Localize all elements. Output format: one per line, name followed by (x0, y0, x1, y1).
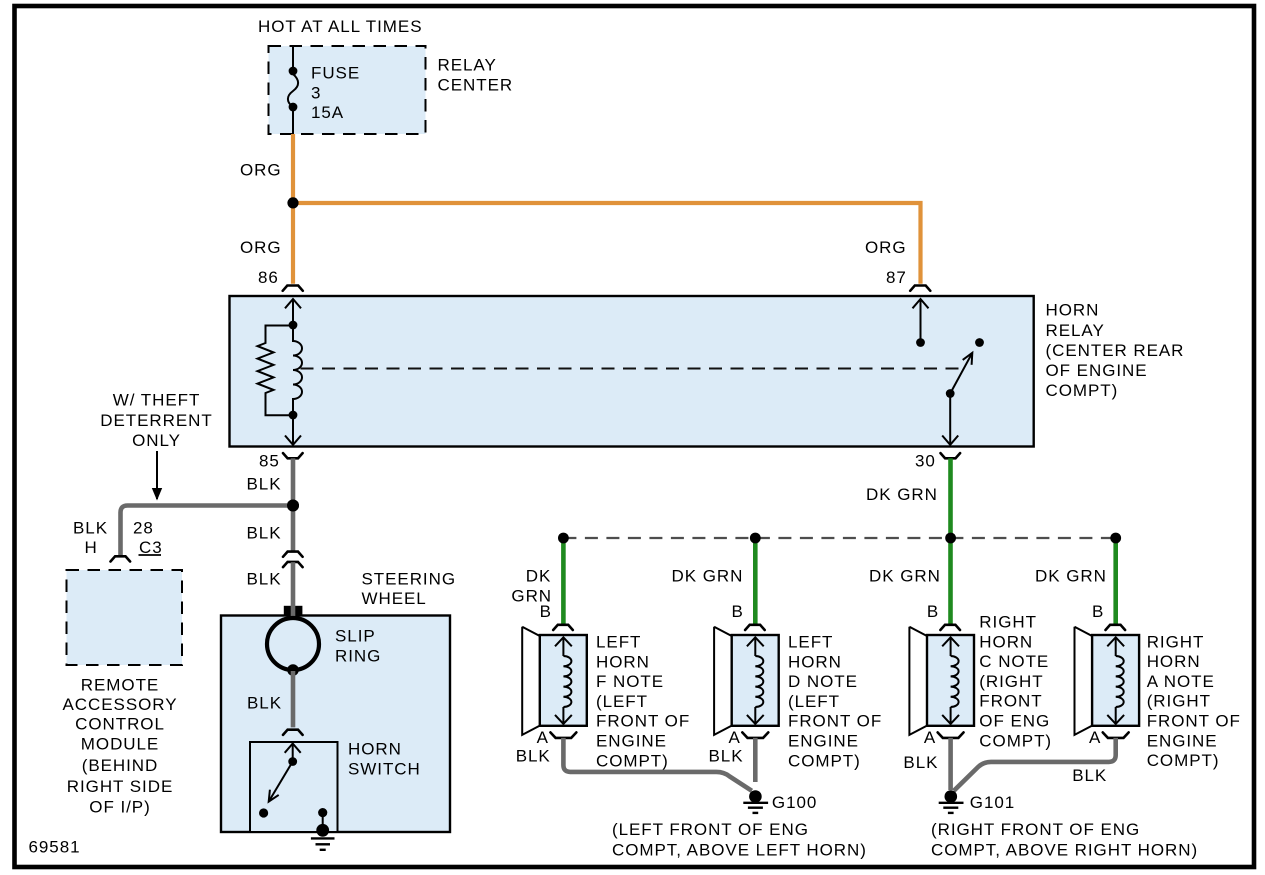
connector pin H (111, 556, 131, 561)
svg-text:REMOTE: REMOTE (81, 676, 159, 695)
horn switch ground contact (318, 808, 327, 817)
connector pin 85 (283, 453, 303, 458)
horn switch box (250, 742, 338, 832)
svg-text:BLK: BLK (73, 519, 108, 538)
svg-text:COMPT, ABOVE LEFT HORN): COMPT, ABOVE LEFT HORN) (612, 841, 867, 860)
wire BLK horn 1 to G100 (563, 738, 751, 791)
svg-text:DK GRN: DK GRN (869, 567, 941, 586)
junction node redraw (287, 500, 299, 512)
connector at horn switch (283, 730, 303, 735)
svg-text:G101: G101 (970, 793, 1015, 812)
svg-text:FRONT: FRONT (979, 692, 1042, 711)
svg-text:BLK: BLK (709, 747, 744, 766)
junction node BLK (287, 500, 299, 512)
svg-text:OF ENGINE: OF ENGINE (1046, 361, 1148, 380)
svg-text:CENTER: CENTER (438, 76, 514, 95)
svg-text:OF ENG: OF ENG (979, 712, 1050, 731)
wire DK GRN to left horn D (753, 540, 758, 625)
svg-text:15A: 15A (311, 103, 344, 122)
svg-text:G100: G100 (772, 793, 817, 812)
relay switch fixed contact (975, 338, 984, 347)
dashed distribution line (563, 537, 1115, 539)
connector pin 87 (910, 286, 930, 291)
relay switch arm (950, 353, 972, 394)
svg-text:28: 28 (133, 519, 154, 538)
relay resistor (258, 326, 294, 416)
svg-text:RIGHT: RIGHT (979, 613, 1037, 632)
svg-text:A NOTE: A NOTE (1147, 672, 1215, 691)
svg-text:ORG: ORG (240, 161, 282, 180)
wire BLK horn 2 to G100 (753, 738, 758, 782)
svg-text:HORN: HORN (348, 740, 402, 759)
remote accessory control module dashed box (67, 570, 183, 665)
svg-text:ACCESSORY: ACCESSORY (63, 695, 178, 714)
steering wheel box (221, 616, 450, 833)
svg-text:(BEHIND: (BEHIND (82, 756, 159, 775)
wire BLK through connector (291, 604, 296, 618)
svg-text:CONTROL: CONTROL (75, 715, 165, 734)
svg-text:B: B (1092, 602, 1104, 621)
svg-text:(LEFT: (LEFT (596, 692, 648, 711)
horn 1 left horn F note (522, 625, 587, 738)
svg-text:A: A (729, 728, 741, 747)
svg-text:MODULE: MODULE (81, 734, 159, 753)
svg-text:(RIGHT FRONT OF ENG: (RIGHT FRONT OF ENG (931, 820, 1140, 839)
wire BLK below junction (291, 506, 296, 552)
svg-text:FRONT OF: FRONT OF (788, 712, 882, 731)
inline connector (283, 552, 303, 557)
svg-text:HORN: HORN (788, 652, 842, 671)
svg-text:COMPT, ABOVE RIGHT HORN): COMPT, ABOVE RIGHT HORN) (931, 841, 1198, 860)
slip ring feed connector black square (284, 606, 303, 616)
svg-text:ORG: ORG (240, 238, 282, 257)
svg-text:FUSE: FUSE (311, 64, 360, 83)
svg-text:COMPT): COMPT) (788, 751, 861, 770)
svg-text:OF I/P): OF I/P) (89, 797, 150, 816)
svg-text:BLK: BLK (247, 475, 282, 494)
wire ORG to pin 86 (291, 203, 295, 284)
svg-text:HORN: HORN (596, 652, 650, 671)
svg-text:HORN: HORN (1046, 301, 1100, 320)
svg-text:ENGINE: ENGINE (596, 732, 667, 751)
svg-text:A: A (924, 728, 936, 747)
svg-text:RELAY: RELAY (1046, 321, 1105, 340)
junction node horn 1 (558, 533, 569, 544)
svg-text:COMPT): COMPT) (1046, 381, 1119, 400)
slip ring (267, 618, 319, 670)
svg-text:69581: 69581 (29, 838, 81, 857)
svg-text:BLK: BLK (247, 694, 282, 713)
horn 2 left horn D note (714, 625, 779, 738)
svg-text:(RIGHT: (RIGHT (1147, 692, 1211, 711)
svg-text:ENGINE: ENGINE (1147, 731, 1218, 750)
svg-text:FRONT OF: FRONT OF (1147, 712, 1241, 731)
wire DK GRN to left horn F (561, 540, 566, 625)
svg-text:DK GRN: DK GRN (1035, 567, 1107, 586)
svg-text:SLIP: SLIP (335, 627, 376, 646)
horn switch terminal arrow (285, 744, 301, 753)
wire BLK horn 3 to G101 (948, 738, 953, 790)
relay pin 87 terminal arrow (913, 299, 929, 308)
svg-text:DK: DK (526, 567, 552, 586)
relay actuation dashed line (301, 368, 960, 370)
wire ORG horizontal to pin 87 (293, 203, 921, 284)
wire BLK to steering wheel (291, 562, 296, 604)
horn 4 right horn A note (1075, 625, 1140, 738)
svg-text:86: 86 (258, 268, 279, 287)
svg-text:(LEFT FRONT OF ENG: (LEFT FRONT OF ENG (612, 820, 809, 839)
svg-text:FRONT OF: FRONT OF (596, 712, 690, 731)
junction node horn 2 (750, 533, 761, 544)
connector pin 30 (941, 453, 961, 458)
wire BLK branch to remote module (121, 506, 294, 557)
relay pin 86 terminal arrow (285, 299, 301, 308)
wire BLK from pin 85 (291, 458, 296, 505)
svg-text:A: A (537, 728, 549, 747)
junction node (287, 197, 298, 208)
svg-text:C3: C3 (139, 538, 163, 557)
svg-text:COMPT): COMPT) (1147, 751, 1220, 770)
svg-text:RELAY: RELAY (438, 55, 497, 74)
junction node horn 3 (945, 533, 956, 544)
svg-text:BLK: BLK (247, 524, 282, 543)
svg-text:(RIGHT: (RIGHT (979, 672, 1043, 691)
svg-text:(CENTER REAR: (CENTER REAR (1046, 341, 1185, 360)
relay coil (293, 325, 302, 415)
svg-text:HOT AT ALL TIMES: HOT AT ALL TIMES (258, 17, 422, 36)
wire DK GRN to right horn A (1113, 540, 1118, 625)
svg-text:DETERRENT: DETERRENT (100, 411, 212, 430)
horn 3 right horn C note (909, 625, 974, 738)
svg-text:BLK: BLK (903, 753, 938, 772)
svg-text:W/ THEFT: W/ THEFT (113, 391, 201, 410)
svg-text:ORG: ORG (865, 238, 907, 257)
svg-text:SWITCH: SWITCH (348, 760, 421, 779)
svg-text:ENGINE: ENGINE (788, 732, 859, 751)
wire BLK in steering wheel (291, 671, 296, 727)
svg-text:DK GRN: DK GRN (672, 567, 744, 586)
svg-text:85: 85 (259, 452, 280, 471)
svg-text:RIGHT SIDE: RIGHT SIDE (67, 777, 173, 796)
svg-text:BLK: BLK (516, 747, 551, 766)
ground G101 (945, 790, 958, 803)
svg-text:ONLY: ONLY (132, 431, 181, 450)
ground G100 (749, 790, 762, 803)
svg-text:DK GRN: DK GRN (866, 485, 938, 504)
horn relay box (230, 296, 1034, 447)
theft pointer arrow (156, 451, 158, 499)
horn switch arm (269, 762, 293, 802)
wire BLK horn 4 to G101 (954, 738, 1116, 791)
wire DK GRN from pin 30 (948, 458, 953, 624)
svg-text:RIGHT: RIGHT (1147, 632, 1205, 651)
relay pin 30 lead with arrow (949, 394, 951, 444)
svg-text:WHEEL: WHEEL (362, 589, 427, 608)
svg-text:30: 30 (915, 452, 936, 471)
svg-text:H: H (85, 538, 98, 557)
svg-text:C NOTE: C NOTE (979, 652, 1049, 671)
relay center dashed box (269, 46, 426, 134)
svg-text:B: B (732, 602, 744, 621)
svg-text:HORN: HORN (979, 632, 1033, 651)
svg-text:A: A (1089, 728, 1101, 747)
ground symbol at horn switch (311, 837, 335, 839)
relay pin 85 lead with arrow (292, 415, 294, 444)
svg-text:LEFT: LEFT (788, 633, 833, 652)
fuse F3 15A (288, 46, 298, 134)
svg-text:87: 87 (886, 268, 907, 287)
svg-text:BLK: BLK (1072, 766, 1107, 785)
svg-text:3: 3 (311, 84, 321, 103)
svg-text:BLK: BLK (247, 570, 282, 589)
svg-text:STEERING: STEERING (362, 569, 457, 588)
svg-text:RING: RING (335, 647, 381, 666)
svg-text:LEFT: LEFT (596, 633, 641, 652)
junction node horn 4 (1110, 533, 1121, 544)
connector pin 86 (283, 286, 303, 291)
svg-text:B: B (927, 602, 939, 621)
svg-text:(LEFT: (LEFT (788, 692, 840, 711)
svg-text:D NOTE: D NOTE (788, 672, 858, 691)
svg-text:B: B (540, 602, 552, 621)
svg-text:COMPT): COMPT) (596, 751, 669, 770)
svg-text:COMPT): COMPT) (979, 731, 1052, 750)
svg-text:HORN: HORN (1147, 652, 1201, 671)
svg-text:F NOTE: F NOTE (596, 672, 664, 691)
wire ORG from fuse down (291, 134, 295, 202)
